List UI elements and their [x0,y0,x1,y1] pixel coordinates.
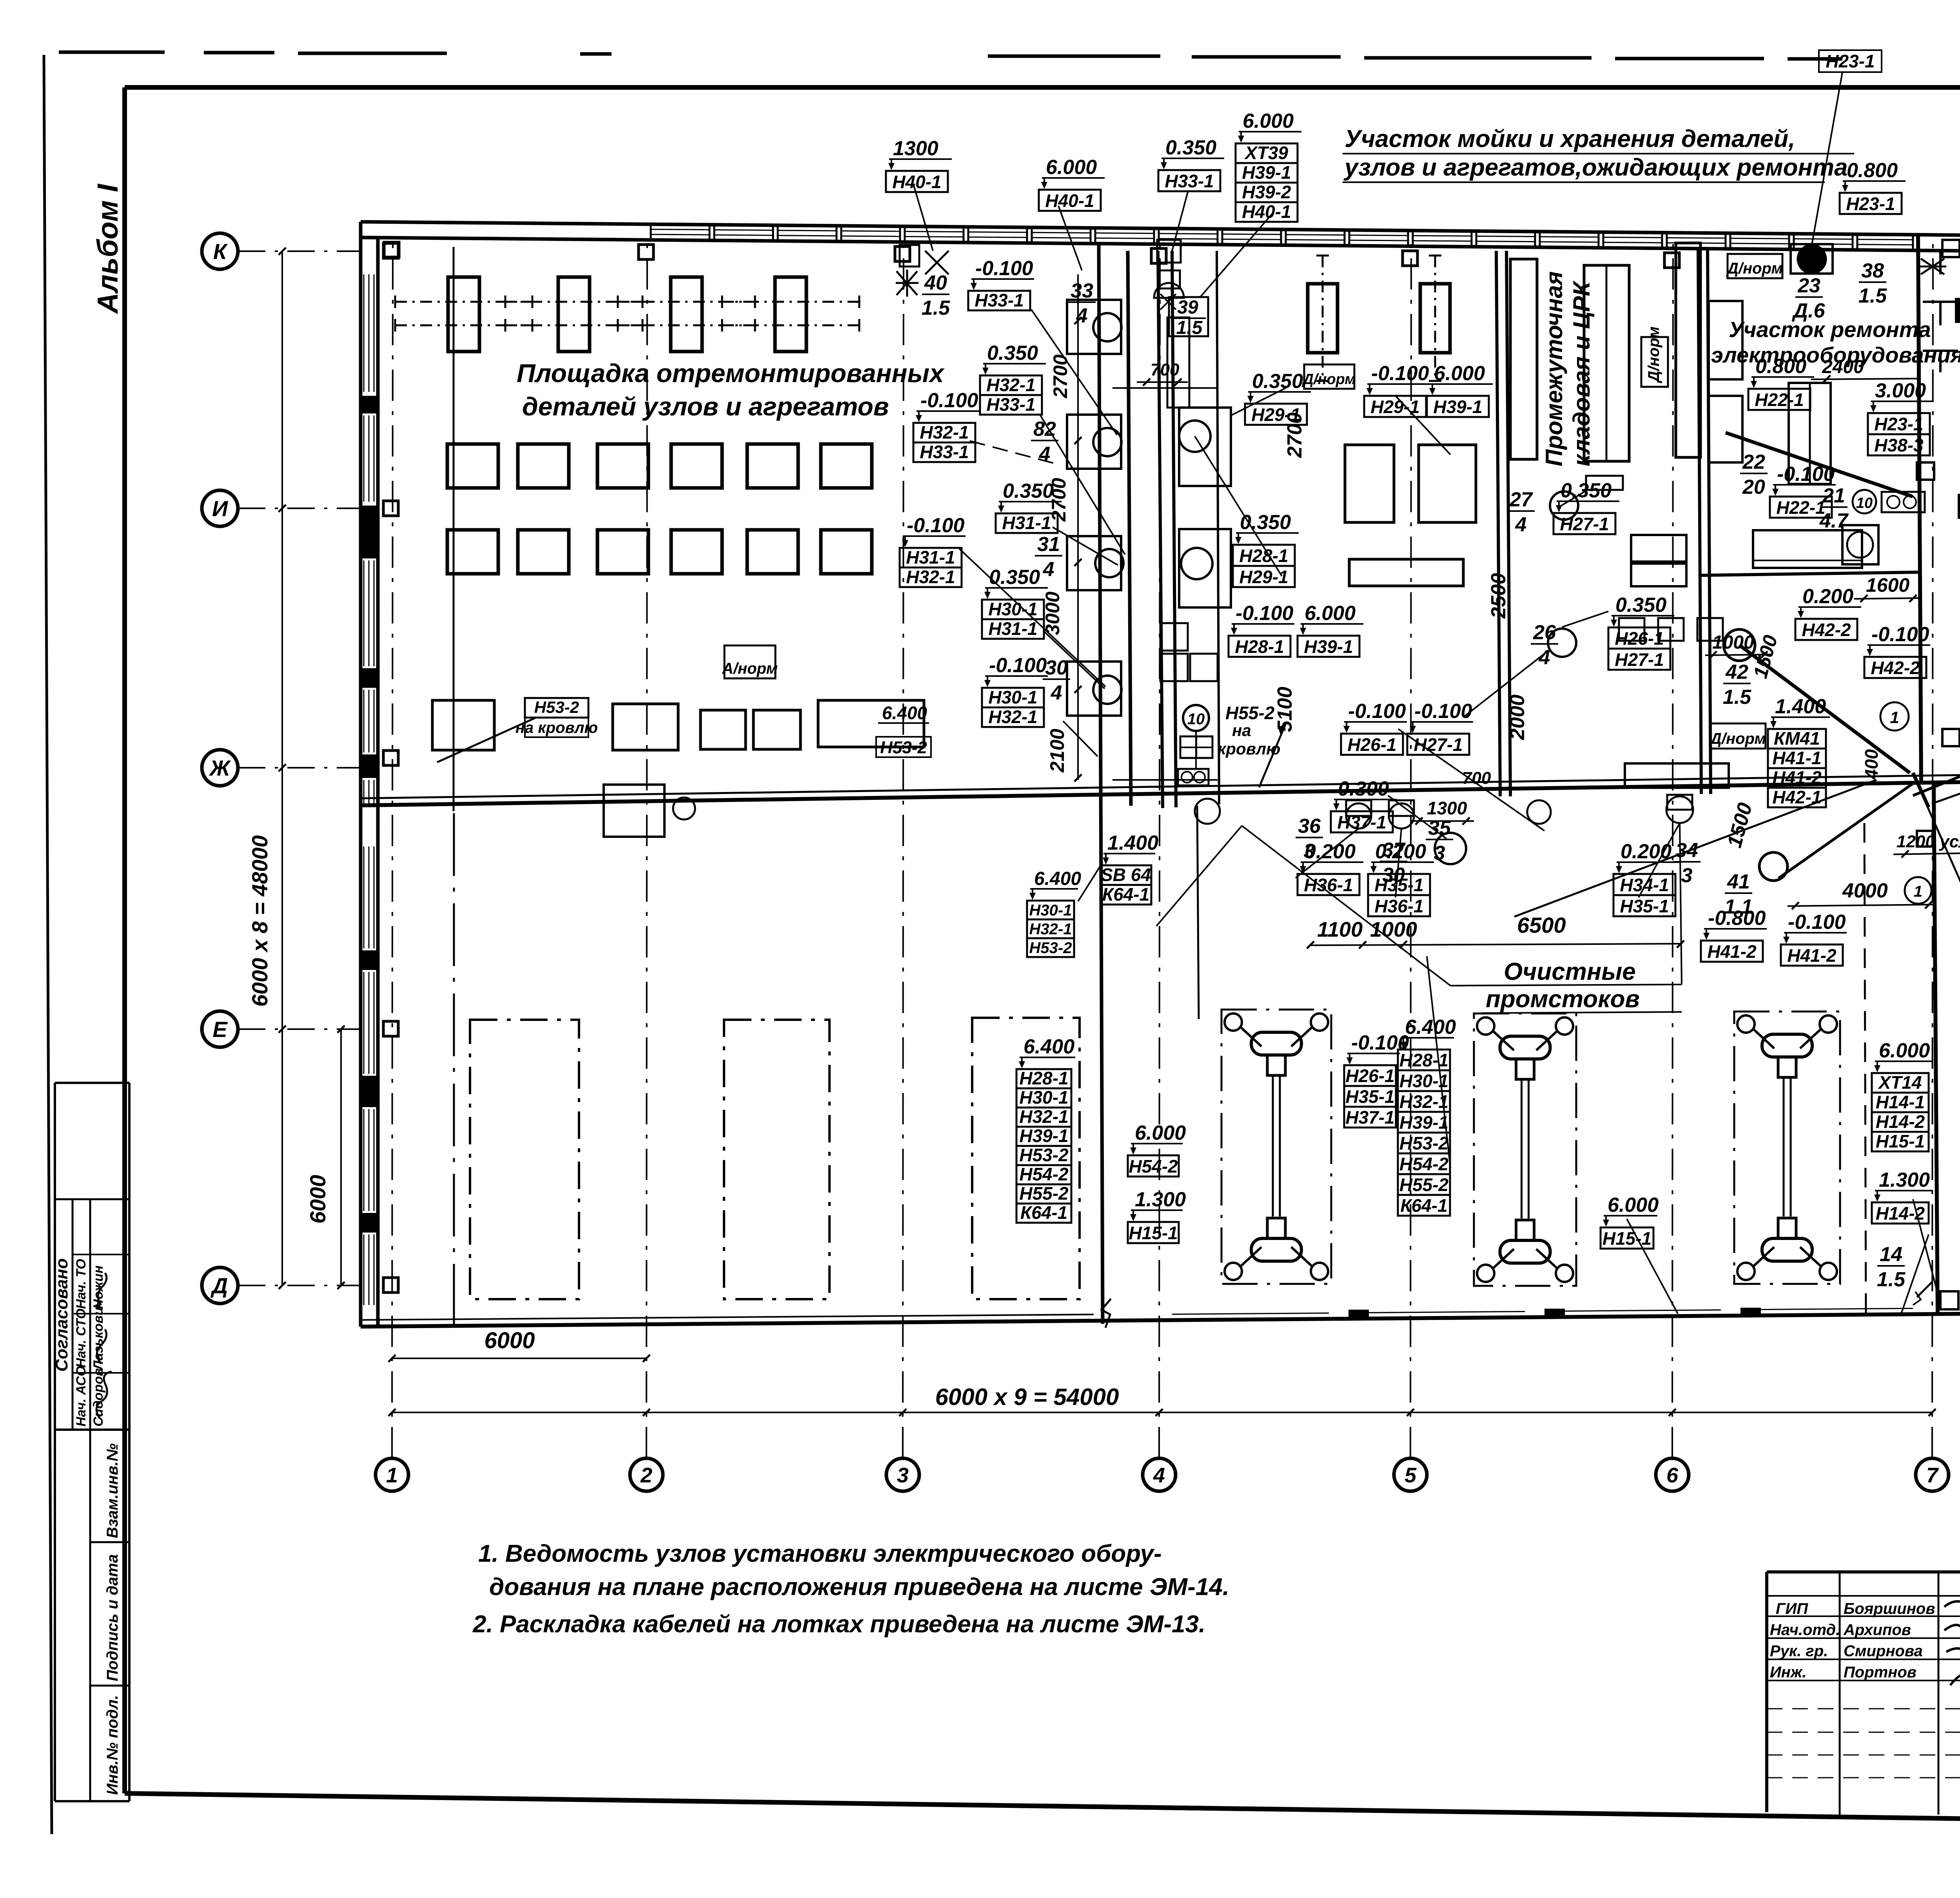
label Н23-1 top [1812,50,1882,245]
svg-text:Н32-1: Н32-1 [1029,921,1072,938]
svg-text:Н32-1: Н32-1 [986,375,1035,395]
svg-text:1.400: 1.400 [1775,695,1826,718]
svg-text:Н31-1: Н31-1 [1002,513,1051,533]
svg-text:4.7: 4.7 [1819,509,1849,532]
label на кровлю [515,718,598,737]
axis И circle [202,490,238,526]
stack Н34-1 [1613,840,1679,916]
storeroom racks [1510,243,1700,490]
svg-text:Н39-1: Н39-1 [1304,636,1353,657]
label Н53-2 на кровлю a [525,698,588,718]
wall bottom [361,1314,1960,1327]
svg-text:на: на [1232,721,1251,740]
stack Н31-1 b [900,514,965,587]
stack Н40-1 t2 [1039,156,1105,211]
svg-text:0.350: 0.350 [1615,594,1666,616]
svg-text:2000: 2000 [1506,694,1529,740]
cable diagonal 5 [1514,780,1877,917]
circle 42 [1724,629,1755,661]
svg-text:Альбом I: Альбом I [91,183,124,314]
svg-text:Портнов: Портнов [1844,1664,1916,1681]
wall horizontal electro room [1701,572,1920,575]
svg-text:Н31-1: Н31-1 [906,547,955,567]
door recess top left hall [900,245,919,266]
leader top1 [913,184,1274,298]
svg-text:6000 x 9 = 54000: 6000 x 9 = 54000 [935,1384,1119,1410]
stack Н35-1 [1368,840,1434,916]
svg-text:К: К [213,239,228,264]
stack Н29-1 a [1245,370,1311,425]
stack Н54-2 [1128,1122,1186,1177]
svg-text:3: 3 [1681,864,1693,887]
svg-text:Подпись и дата: Подпись и дата [104,1554,121,1681]
svg-text:Н39-1: Н39-1 [1399,1112,1448,1133]
svg-text:Н26-1: Н26-1 [1345,1066,1394,1086]
gallery T bars [1923,251,1958,372]
svg-text:6.000: 6.000 [1046,156,1097,179]
lift pit 1 [1221,1010,1331,1284]
svg-text:Н38-3: Н38-3 [1874,435,1924,455]
stack Н37-1 a [1331,778,1397,832]
dim 1200 усл 400 [1893,830,1960,857]
dim 2400 [1811,357,1917,383]
bottom dimension 6000 [388,1328,650,1362]
svg-text:Н29-1: Н29-1 [1251,404,1300,425]
svg-text:10: 10 [1187,711,1205,728]
svg-text:Ж: Ж [209,756,231,780]
axis 5 circle [1394,1458,1427,1491]
floor drains [673,796,1693,828]
svg-text:6: 6 [1666,1463,1679,1487]
svg-text:Н26-1: Н26-1 [1615,628,1664,649]
dim 700 corridor [1137,360,1188,386]
lift pit 3 [1734,1012,1840,1284]
svg-text:1600: 1600 [1866,574,1909,596]
svg-text:-0.100: -0.100 [989,654,1047,677]
svg-text:6500: 6500 [1517,913,1566,937]
svg-text:Н32-1: Н32-1 [1399,1091,1448,1112]
socket pair [1882,492,1925,512]
svg-text:1300: 1300 [1427,798,1467,818]
wall vertical storeroom left [1496,251,1510,796]
dim 700 b [1462,769,1491,788]
svg-text:2500: 2500 [1487,573,1510,619]
svg-text:Н15-1: Н15-1 [1129,1223,1178,1243]
svg-text:1: 1 [1914,883,1922,900]
axis 2 circle [630,1458,663,1491]
svg-text:1.5: 1.5 [1877,1268,1906,1291]
bay2 tables [1345,445,1476,586]
axis Д leader [238,1285,361,1286]
svg-text:Н30-1: Н30-1 [988,687,1037,707]
lower leaders [1078,823,1938,1314]
wall top [361,222,1960,251]
machine M1 [395,277,532,352]
svg-text:2. Раскладка кабелей на лотках: 2. Раскладка кабелей на лотках приведена… [472,1611,1205,1638]
circle 10 right [1853,490,1876,513]
stack Н27-1 b [1553,479,1619,534]
svg-text:21: 21 [1822,484,1845,507]
corridor fans left [1093,313,1123,704]
svg-text:Архипов: Архипов [1843,1621,1911,1639]
stack Н33-1 a [968,257,1034,310]
svg-text:Н30-1: Н30-1 [1019,1087,1068,1108]
outer border top dashes [59,52,1960,61]
frac 30/4 [1043,656,1070,704]
svg-text:К64-1: К64-1 [1102,884,1149,905]
Очистные text [1450,958,1682,1013]
svg-text:Н30-1: Н30-1 [1029,902,1072,919]
svg-text:3: 3 [897,1463,909,1487]
hall title [517,359,945,421]
svg-text:Н23-1: Н23-1 [1874,414,1923,434]
svg-text:6.400: 6.400 [882,703,927,723]
label Д/норм vertical [1641,326,1668,387]
circle node 1 b [1905,877,1931,904]
svg-text:Нач. ТО: Нач. ТО [74,1259,89,1309]
svg-text:Н39-1: Н39-1 [1242,162,1291,183]
svg-text:-0.800: -0.800 [1708,907,1766,930]
svg-text:Н53-2: Н53-2 [1399,1133,1449,1153]
cable diagonal 3 [1913,709,1960,796]
stack Н39-1 b [1298,602,1363,657]
corridor equipment right [1179,408,1231,607]
svg-text:6000: 6000 [484,1328,535,1353]
svg-text:Д/норм: Д/норм [1302,371,1356,388]
svg-text:Н41-2: Н41-2 [1707,941,1757,962]
storeroom leaders [1561,490,1608,627]
svg-text:6.400: 6.400 [1405,1016,1456,1039]
svg-text:Н40-1: Н40-1 [1242,201,1291,222]
svg-text:Инв.№ подл.: Инв.№ подл. [104,1695,121,1795]
svg-text:33: 33 [1071,279,1093,302]
svg-text:Н14-2: Н14-2 [1876,1111,1925,1132]
svg-text:Н55-2: Н55-2 [1399,1175,1449,1195]
svg-text:14: 14 [1880,1243,1902,1266]
svg-text:0.350: 0.350 [1003,480,1054,502]
dim 1300 [1411,798,1474,825]
svg-text:1.5: 1.5 [1858,285,1887,307]
svg-text:Н14-2: Н14-2 [1876,1203,1925,1224]
svg-text:2: 2 [640,1463,652,1487]
wall right inner lower [1934,784,1938,1314]
corridor bottom fittings [1178,736,1212,785]
svg-text:30: 30 [1045,656,1068,679]
svg-text:1: 1 [1890,708,1899,727]
left hall dim chain [1042,274,1082,781]
stack Н40-1 t1 [886,137,952,192]
frac 22/20 [1740,451,1768,499]
axis 3 circle [886,1458,919,1491]
svg-text:23: 23 [1797,274,1820,297]
svg-text:КМ41: КМ41 [1774,728,1820,749]
circle 10 left [1183,705,1209,769]
label А/норм [722,645,778,678]
svg-text:700: 700 [1151,360,1180,379]
stack 6400 mid [1398,1016,1456,1216]
svg-text:4000: 4000 [1842,879,1888,902]
cable line vertical A [1099,243,1103,1324]
flare left hall [896,270,918,297]
stack Н23-1 b [1868,379,1934,455]
svg-text:Н33-1: Н33-1 [1165,171,1214,191]
svg-text:Д/норм: Д/норм [1726,260,1783,277]
axis И leader [238,508,361,509]
motor symbol [1791,244,1833,274]
axis 1 circle [376,1458,408,1491]
leaders left hall [959,310,1125,756]
axis К leader [238,250,361,252]
stack Н22-1 a [1748,355,1814,410]
svg-text:ХТ14: ХТ14 [1878,1072,1922,1093]
svg-text:1.300: 1.300 [1135,1188,1186,1211]
drain boxes [604,785,1692,837]
frac 14/1.5 [1877,1243,1906,1291]
svg-text:6.000: 6.000 [1608,1194,1659,1216]
svg-text:3.000: 3.000 [1875,379,1926,402]
leader bench [437,718,535,762]
svg-text:27: 27 [1509,488,1533,511]
stack Н14-2 [1872,1169,1933,1224]
wall left lower [361,805,378,1327]
svg-text:Н32-1: Н32-1 [906,567,955,587]
svg-text:4: 4 [1515,513,1527,536]
svg-text:2700: 2700 [1048,478,1070,522]
svg-text:Н53-2: Н53-2 [534,698,579,716]
axis 5 line [1410,243,1411,1458]
dim 1000 r [1705,632,1772,658]
notes [472,1540,1229,1638]
svg-text:0.800: 0.800 [1755,355,1806,378]
svg-text:Участок мойки и хранения детал: Участок мойки и хранения деталей, [1345,125,1795,152]
machine M6 [1420,256,1450,381]
dashed line lower hall x4756 [1864,823,1866,1314]
svg-text:6000 x 8 = 48000: 6000 x 8 = 48000 [247,835,272,1007]
svg-text:-0.100: -0.100 [920,389,978,412]
stack 6400 bay3 top [1027,868,1081,957]
svg-text:5: 5 [1405,1463,1417,1487]
svg-text:Очистные: Очистные [1504,958,1636,985]
frac 42/1.5 [1723,661,1751,709]
svg-text:Н42-2: Н42-2 [1802,620,1851,640]
bench row [432,700,924,750]
svg-text:Н23-1: Н23-1 [1846,194,1895,214]
stack Н31-1 a [996,480,1062,533]
square grid [447,444,872,574]
svg-text:кровлю: кровлю [1218,740,1280,758]
stack Н32-1 b [980,342,1046,415]
axis 7 line [1932,243,1933,1458]
svg-text:Е: Е [212,1017,228,1042]
svg-text:0.300: 0.300 [1338,778,1389,800]
stack Н15-1 b [1128,1188,1186,1243]
wall middle [361,775,1960,805]
svg-text:Н33-1: Н33-1 [975,290,1024,310]
stack ХТ14 [1872,1039,1933,1151]
svg-text:Н40-1: Н40-1 [892,172,941,192]
stack Н41-2 a [1701,907,1767,962]
break symbol bottom wall [1102,1299,1111,1328]
stack КМ41 [1768,695,1830,807]
stack Н28-1 b [1229,602,1294,657]
bottom dimension 54000 [388,1384,1936,1416]
svg-text:31: 31 [1037,533,1060,556]
signature texts [1770,1600,1935,1681]
corridor small boxes [1160,623,1218,681]
label 39/1.5 [1169,297,1208,338]
frac 31/4 [1035,533,1062,581]
svg-text:-0.100: -0.100 [1871,623,1929,646]
stack Н27-1 a [1407,700,1473,755]
svg-text:кладовая и ЦРК: кладовая и ЦРК [1568,280,1595,466]
wall left upper [361,222,378,805]
wall left windows upper [364,274,374,807]
parking bay 2 [724,1020,829,1299]
svg-text:34: 34 [1675,839,1698,862]
svg-text:6.000: 6.000 [1135,1122,1186,1144]
wall left pilasters [362,396,376,1233]
frac 40/1.5 [922,272,950,319]
cable diagonal 4 [1779,780,1918,878]
svg-text:0.350: 0.350 [987,342,1038,364]
svg-text:6.000: 6.000 [1879,1039,1930,1062]
svg-text:20: 20 [1742,476,1765,499]
svg-text:Д/норм: Д/норм [1709,730,1766,747]
svg-text:Площадка отремонтированных: Площадка отремонтированных [517,359,945,388]
label Д/норм lower [1709,723,1766,749]
svg-text:А/норм: А/норм [722,660,778,677]
storeroom boxes [1619,535,1729,788]
left dimension 6000 [305,1026,345,1289]
svg-text:0.200: 0.200 [1802,585,1853,608]
small square top gallery [1917,240,1960,847]
svg-text:Н54-2: Н54-2 [1399,1154,1449,1174]
svg-text:Н29-1: Н29-1 [1239,567,1288,587]
svg-text:Н32-1: Н32-1 [1019,1106,1068,1127]
frac 26/4 boxed [1531,621,1558,669]
wall vertical 1-2 hall divider [1158,251,1176,808]
svg-text:Н35-1: Н35-1 [1374,875,1423,895]
stack Н26-1 b [1608,594,1674,670]
svg-text:2400: 2400 [1822,357,1864,377]
svg-text:1.5: 1.5 [1723,686,1751,709]
axis 6 circle [1656,1458,1689,1491]
dashed duct lower hall [1197,806,1199,1019]
frac 27/4 [1507,488,1535,536]
stack Н15-1 c [1601,1194,1659,1249]
svg-text:SВ 64: SВ 64 [1101,865,1151,885]
stack Н42-2 b [1864,623,1930,678]
svg-text:Н41-2: Н41-2 [1772,767,1822,788]
corridor equipment left [1067,300,1121,716]
axis Е leader [238,1028,361,1030]
svg-text:промстоков: промстоков [1486,986,1640,1013]
frac 36/3 [1296,815,1323,863]
cable diagonal 6 [1913,773,1929,807]
door lower right [1913,1282,1960,1309]
wall bottom windows [1172,1308,1913,1318]
svg-text:Участок ремонта: Участок ремонта [1729,317,1931,342]
cable diagonal 1 [1726,433,1913,497]
svg-text:Н34-1: Н34-1 [1620,875,1669,895]
svg-text:К64-1: К64-1 [1020,1202,1067,1223]
axis 1 line [392,243,393,1458]
svg-text:4: 4 [1043,558,1054,581]
vertical line x1157 [453,247,455,811]
wall right pilasters [1955,298,1960,1248]
circle 41 [1759,852,1788,881]
bay2 leaders [1195,388,1548,839]
frac 35/3 [1426,817,1453,865]
svg-text:1.400: 1.400 [1107,832,1158,854]
svg-text:41: 41 [1727,870,1750,893]
svg-text:Н22-1: Н22-1 [1755,390,1804,410]
circle eq bay2 [1435,833,1466,864]
svg-text:Н36-1: Н36-1 [1374,896,1423,916]
stack Н36-1 [1298,840,1363,895]
axis Ж circle [202,750,238,786]
svg-text:Н33-1: Н33-1 [986,394,1035,415]
svg-text:38: 38 [1861,259,1884,282]
svg-text:0.350: 0.350 [1165,136,1216,159]
machine M4 [722,277,859,352]
stamp rows text [74,1259,106,1427]
svg-text:6.000: 6.000 [1305,602,1356,625]
cable line vertical B [1128,251,1131,806]
frac 21/4.7 [1819,484,1849,532]
lift pit 2 [1474,1013,1576,1286]
svg-text:4: 4 [1539,646,1550,669]
svg-text:Нач. СТО: Нач. СТО [74,1309,89,1368]
svg-text:Н32-1: Н32-1 [988,707,1037,727]
svg-text:-0.100: -0.100 [975,257,1033,280]
frac 38/1.5 [1858,259,1887,307]
svg-text:Нач. АСО: Нач. АСО [74,1366,89,1427]
storeroom title [1541,271,1595,466]
frac 82/4 [1031,418,1058,466]
stack Н33-1 t [1158,136,1224,191]
svg-text:Н55-2: Н55-2 [1019,1183,1069,1204]
svg-text:1. Ведомость узлов установки э: 1. Ведомость узлов установки электрическ… [478,1540,1162,1567]
svg-text:-0.100: -0.100 [907,514,965,537]
svg-text:-0.100: -0.100 [1348,700,1406,723]
svg-text:К64-1: К64-1 [1400,1195,1447,1216]
signature table [1767,1572,1960,1825]
svg-text:Н39-2: Н39-2 [1242,182,1291,202]
axis Е circle [202,1011,238,1047]
axis 7 circle [1916,1458,1949,1491]
label Д/норму [1302,364,1356,389]
label 6.400 Н53-2 [876,703,931,757]
svg-text:700: 700 [1462,769,1491,788]
svg-text:Д/норм: Д/норм [1645,326,1662,383]
svg-text:Д: Д [211,1273,228,1298]
stack Н26-1 a [1341,700,1407,755]
roof slabs top band [651,225,1913,250]
drain corridor [1195,799,1220,824]
svg-text:35: 35 [1428,817,1451,839]
svg-text:Н42-2: Н42-2 [1871,658,1920,678]
frac 41/1.1 [1724,870,1753,918]
axis К circle [202,233,238,269]
svg-text:Н41-1: Н41-1 [1772,748,1821,768]
left dimension line [247,248,286,1289]
svg-text:6.400: 6.400 [1034,868,1081,889]
cable diagonal 8 [1921,792,1960,1093]
svg-text:дования на плане расположения: дования на плане расположения приведена … [489,1574,1229,1601]
svg-text:1.5: 1.5 [922,297,950,319]
svg-text:-0.100: -0.100 [1236,602,1294,625]
